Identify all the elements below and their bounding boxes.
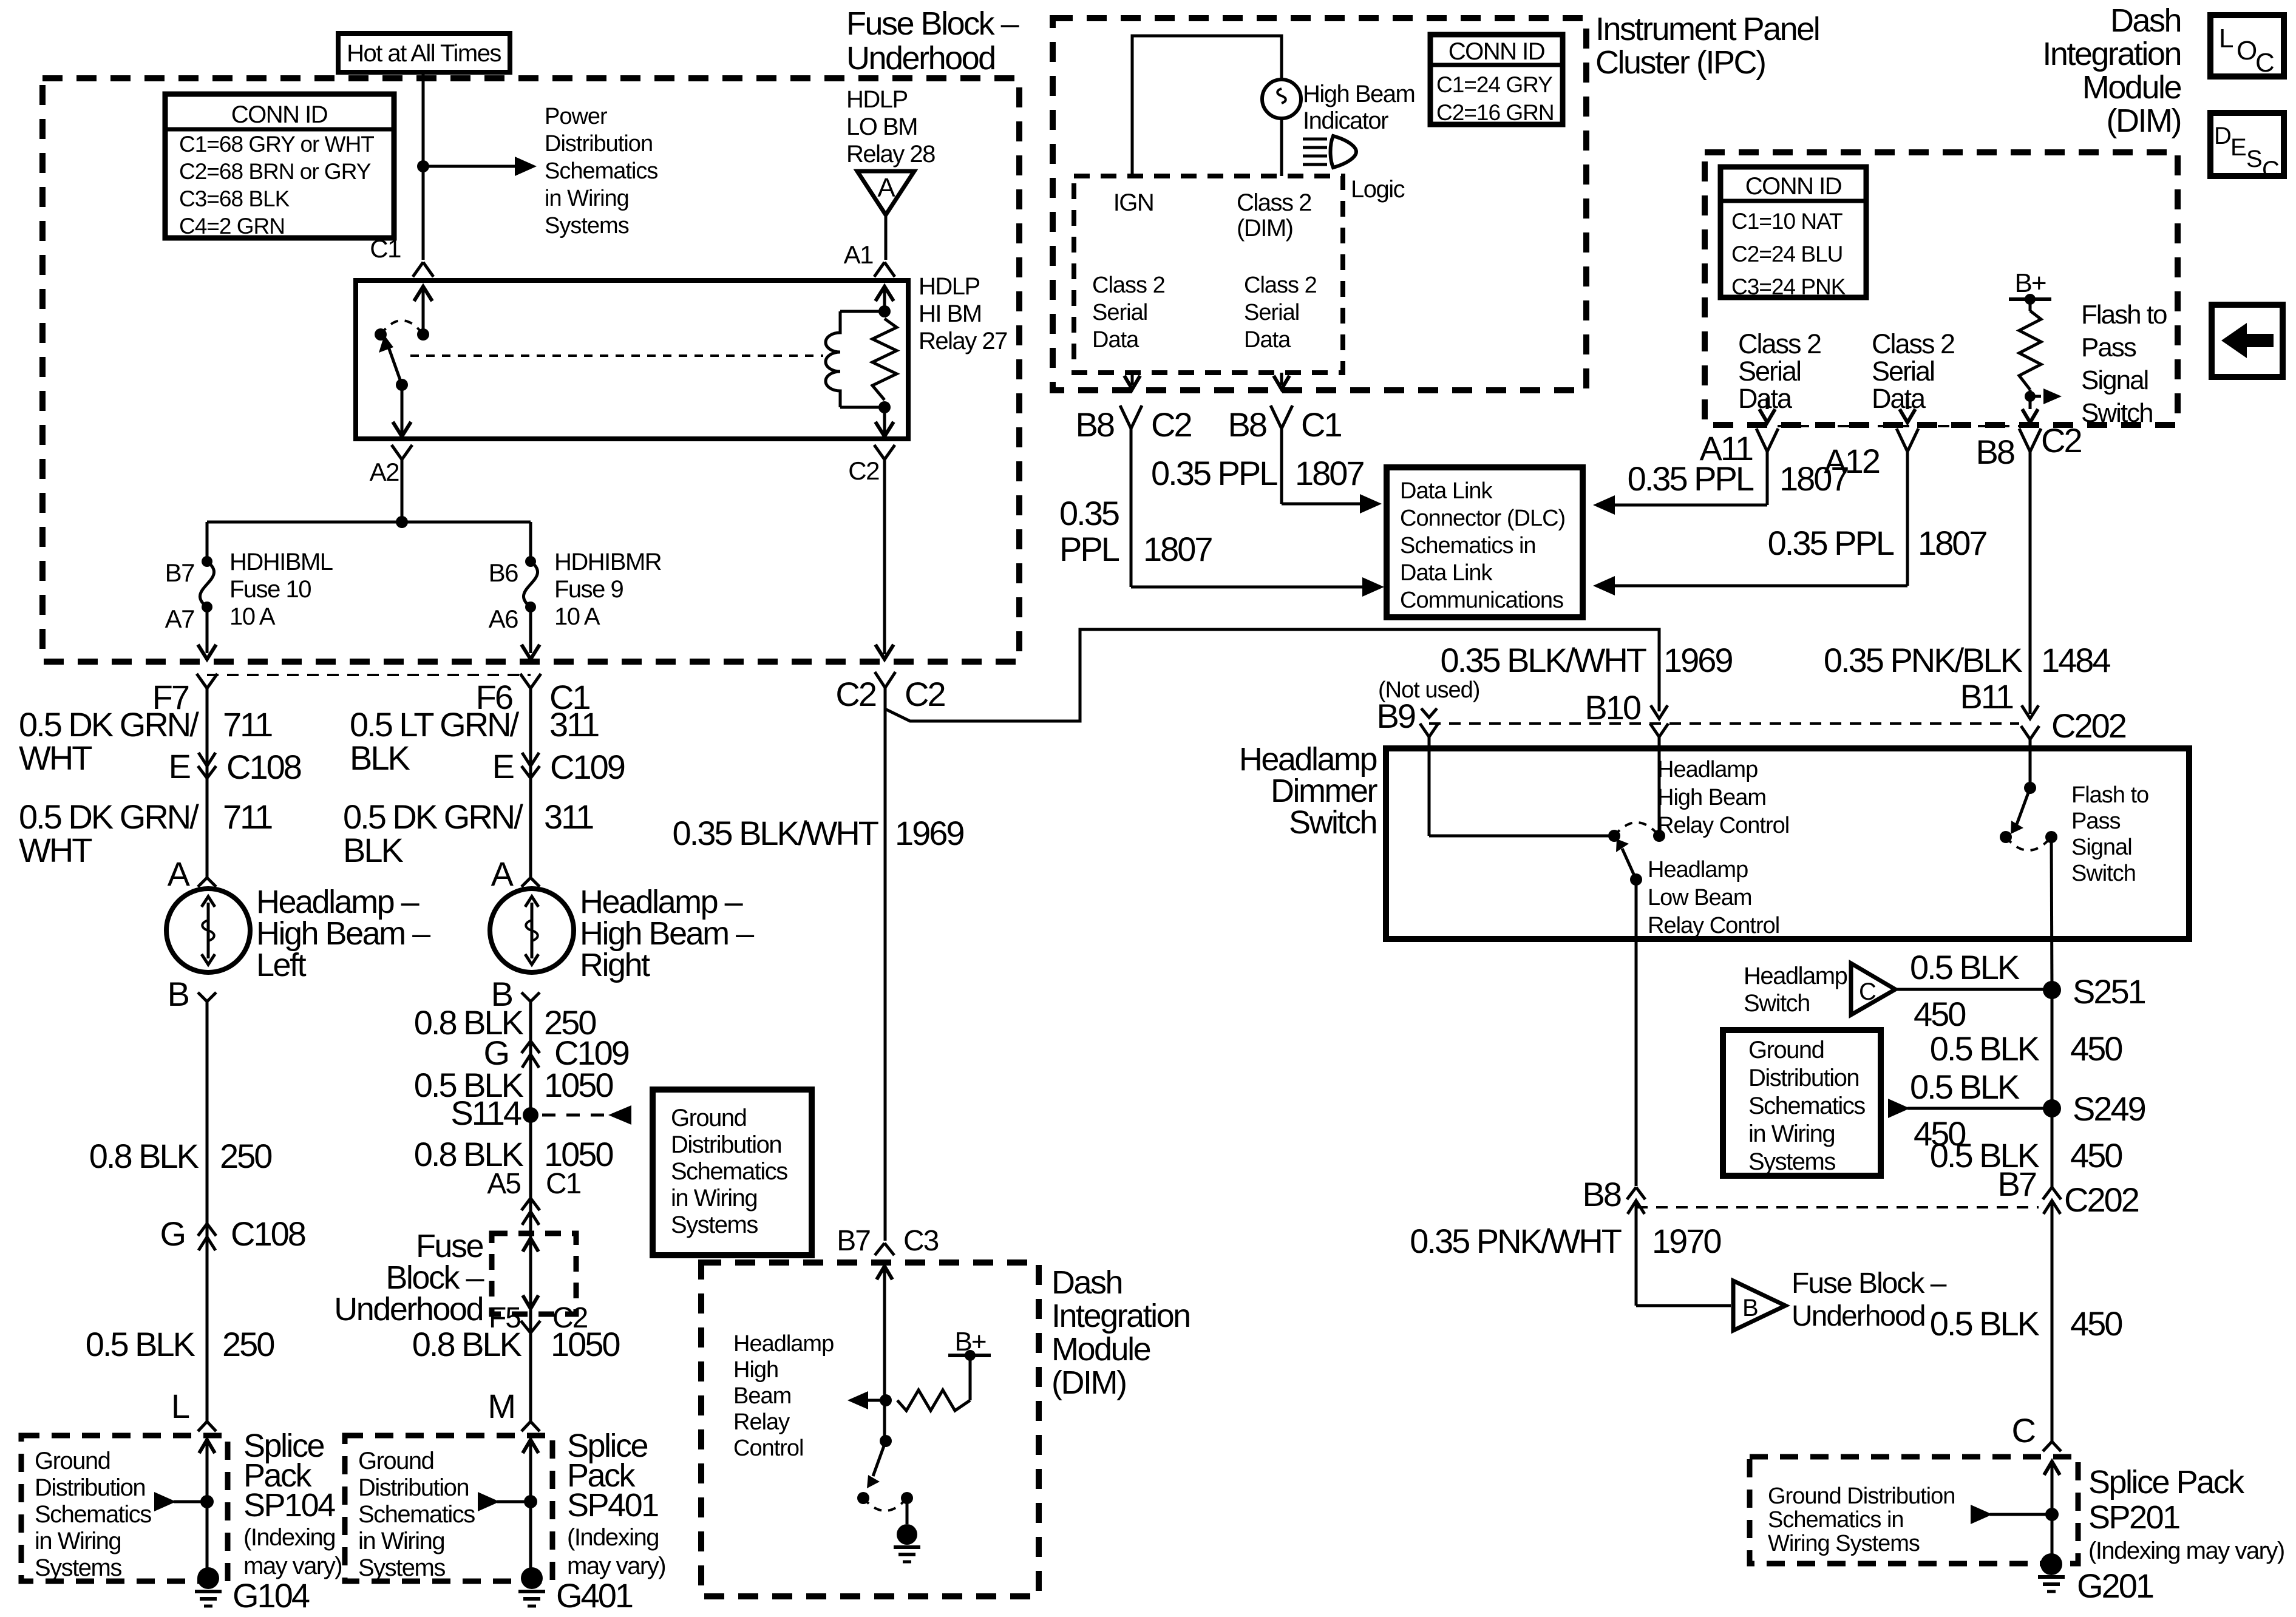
resistor high beam relay drive: [897, 1390, 970, 1411]
switch top contact (DIM bottom): [880, 1435, 892, 1447]
label Headlamp High Beam Relay Control (DIM): [733, 1331, 834, 1461]
svg-text:in Wiring: in Wiring: [358, 1528, 444, 1554]
wire B+ down to resistor: [969, 1355, 972, 1400]
svg-text:may vary): may vary): [243, 1553, 342, 1579]
svg-text:C1: C1: [1301, 405, 1341, 444]
svg-text:High: High: [733, 1357, 778, 1383]
svg-text:1969: 1969: [895, 814, 963, 852]
svg-text:0.5 BLK: 0.5 BLK: [1930, 1029, 2040, 1068]
svg-text:Underhood: Underhood: [846, 40, 995, 76]
label HDHIBMR Fuse 9 10A: [554, 549, 662, 630]
svg-text:10 A: 10 A: [554, 603, 600, 630]
svg-text:0.35 BLK/WHT: 0.35 BLK/WHT: [1441, 641, 1646, 679]
pin B10 label: [1584, 688, 1640, 727]
svg-text:1050: 1050: [544, 1066, 613, 1104]
svg-text:B10: B10: [1584, 688, 1640, 727]
svg-text:Relay Control: Relay Control: [1657, 813, 1789, 838]
pin F6 label: [476, 678, 512, 716]
pin G label (C108 low): [160, 1215, 185, 1253]
svg-text:0.5 DK GRN/: 0.5 DK GRN/: [19, 705, 199, 744]
label Flash to Pass Signal Switch (DIM): [2081, 300, 2167, 428]
connector B8/C2 fork (IPC): [1120, 405, 1142, 587]
svg-text:Low Beam: Low Beam: [1648, 885, 1752, 910]
label Headlamp Dimmer Switch: [1239, 741, 1378, 841]
svg-text:Instrument Panel: Instrument Panel: [1595, 11, 1819, 47]
wire C triangle to S251: [1895, 988, 2052, 991]
wire relay out to C2: [875, 407, 894, 436]
svg-text:Headlamp: Headlamp: [1648, 857, 1748, 883]
wire IPC C2 to DLC: [1131, 577, 1384, 597]
svg-text:S114: S114: [450, 1094, 521, 1132]
dimmer switch pivot: [1630, 873, 1642, 886]
node hot feed junction: [417, 160, 429, 172]
svg-text:0.8 BLK: 0.8 BLK: [412, 1325, 522, 1363]
label Headlamp High Beam Relay Control (dimmer): [1657, 757, 1789, 838]
label G201: [2077, 1567, 2153, 1605]
svg-text:Fuse: Fuse: [416, 1228, 483, 1264]
svg-text:C109: C109: [550, 748, 625, 786]
svg-text:Schematics: Schematics: [1748, 1093, 1865, 1119]
wire B9 to dimmer contact: [1429, 835, 1614, 838]
label HDLP HI BM Relay 27: [919, 273, 1007, 354]
node coil bottom: [878, 401, 891, 413]
svg-text:10 A: 10 A: [229, 603, 276, 630]
wire DIM class2 left exit: [1759, 398, 1775, 422]
svg-text:Data: Data: [1738, 383, 1793, 414]
wire IPC class2 right exit: [1274, 373, 1289, 389]
svg-text:Flash to: Flash to: [2081, 300, 2167, 330]
label C108 (G row): [231, 1215, 305, 1253]
svg-text:0.5 BLK: 0.5 BLK: [86, 1325, 195, 1363]
splice S114: [450, 1094, 538, 1132]
relay economizer resistor: [872, 319, 897, 400]
pin B9 label: [1377, 697, 1415, 735]
ground symbol (DIM bottom): [894, 1524, 920, 1562]
svg-text:0.5 DK GRN/: 0.5 DK GRN/: [19, 798, 199, 836]
svg-text:B+: B+: [2014, 268, 2045, 298]
svg-text:B: B: [1742, 1295, 1758, 1321]
svg-text:PPL: PPL: [1059, 530, 1119, 568]
module Instrument Panel Cluster dashed box: [1053, 18, 1586, 390]
splice pack SP104 dashed box: [21, 1436, 228, 1581]
connector A fork (right lamp): [521, 878, 540, 887]
label S249: [2073, 1090, 2145, 1128]
svg-text:A11: A11: [1700, 429, 1753, 467]
pin C label (SP201): [2012, 1411, 2036, 1449]
pin C1 label (relay coil): [370, 234, 401, 263]
flash to pass left contact: [2000, 831, 2012, 843]
svg-text:(DIM): (DIM): [1051, 1364, 1126, 1401]
wire label 0.35 PNK/WHT 1970: [1410, 1222, 1720, 1260]
module Fuse Block - Underhood (dashed outline): [42, 78, 1019, 662]
svg-text:C2=68 BRN or GRY: C2=68 BRN or GRY: [179, 159, 371, 184]
pin A6 label (fuse9): [489, 605, 518, 633]
wire through small FB box: [523, 1238, 538, 1309]
svg-text:C2: C2: [2041, 421, 2081, 459]
label (Not used): [1378, 677, 1479, 703]
svg-text:E: E: [2230, 134, 2246, 161]
label Class 2 Serial Data (IPC right): [1244, 273, 1317, 353]
svg-text:Fuse Block –: Fuse Block –: [1792, 1267, 1947, 1300]
dimmer switch arm: [1616, 839, 1636, 880]
relay switch pivot: [396, 379, 408, 391]
connector C2 fork (relay output): [874, 445, 895, 654]
label Fuse Block - Underhood title: [846, 5, 1019, 76]
pin C2 label (relay output): [848, 456, 879, 485]
wire fuse9 to F6: [521, 607, 540, 659]
pin A12 label: [1824, 442, 1879, 480]
svg-text:Indicator: Indicator: [1303, 107, 1388, 134]
svg-text:S249: S249: [2073, 1090, 2145, 1128]
svg-text:Schematics: Schematics: [545, 158, 657, 184]
connector A5/C1 inline: [521, 1198, 540, 1225]
label Headlamp Low Beam Relay Control (dimmer): [1648, 857, 1779, 938]
wire IGN loop: [1132, 36, 1282, 176]
wire label 0.35 BLK/WHT 1969 (main): [673, 814, 964, 852]
wire label 0.5 BLK 450 (to SP201): [1930, 1304, 2122, 1343]
pin A5 label: [487, 1168, 520, 1200]
svg-text:C3=24 PNK: C3=24 PNK: [1731, 274, 1846, 299]
svg-text:Signal: Signal: [2071, 835, 2132, 860]
svg-text:Distribution: Distribution: [358, 1474, 469, 1501]
svg-text:Data Link: Data Link: [1400, 560, 1493, 586]
svg-text:450: 450: [1914, 995, 1965, 1033]
wire label 0.35 PPL 1807 (IPC C1 wire): [1151, 454, 1364, 492]
svg-text:Module: Module: [1051, 1331, 1150, 1368]
svg-text:Pass: Pass: [2071, 808, 2120, 834]
icon high beam lamp: [1303, 136, 1356, 168]
wire label 0.35 PPL 1807 (A11 wire): [1628, 459, 1849, 498]
svg-text:C2=24 BLU: C2=24 BLU: [1731, 242, 1843, 266]
arrow relay control output left: [847, 1391, 886, 1409]
wire reference arrow to Power Distribution: [423, 157, 537, 176]
pin E label (C109): [492, 747, 514, 785]
svg-text:High Beam: High Beam: [1657, 785, 1766, 810]
svg-text:Headlamp –: Headlamp –: [580, 884, 743, 920]
connector B7/C3 fork: [875, 1243, 894, 1255]
connector A1 fork: [874, 262, 895, 277]
svg-text:C: C: [1859, 978, 1876, 1005]
svg-text:711: 711: [223, 798, 272, 836]
ground G201: [2038, 1553, 2065, 1592]
label Dash Integration Module (DIM): [2042, 2, 2181, 139]
power bar B+ (DIM): [2009, 294, 2051, 305]
wire label 0.8 BLK 250 (right): [414, 1003, 596, 1042]
svg-text:311: 311: [544, 798, 593, 836]
wire bus to fuse 10: [206, 522, 209, 561]
relay linkage dashed line: [410, 354, 823, 357]
offpage triangle A (Relay 28): [857, 171, 914, 260]
svg-text:BLK: BLK: [350, 739, 410, 777]
splice S249: [2043, 1099, 2061, 1117]
node flash resistor out: [2025, 391, 2036, 402]
svg-text:CONN ID: CONN ID: [1745, 173, 1841, 200]
svg-text:Schematics: Schematics: [358, 1501, 475, 1528]
svg-text:in Wiring: in Wiring: [1748, 1120, 1835, 1147]
svg-text:Headlamp: Headlamp: [1657, 757, 1758, 782]
svg-text:A5: A5: [487, 1168, 520, 1200]
wire DIM A11 to DLC: [1593, 452, 1767, 515]
arrow into relay pin C1: [414, 286, 432, 334]
svg-text:Fuse Block –: Fuse Block –: [846, 5, 1019, 42]
fuse F10 HDHIBML: [200, 556, 214, 612]
wire flash contact down to S251: [2051, 837, 2052, 990]
svg-text:250: 250: [220, 1137, 271, 1175]
pin A7 label (fuse10): [165, 605, 195, 633]
svg-text:B: B: [168, 975, 189, 1013]
label Fuse Block Underhood (B ref): [1792, 1267, 1947, 1332]
connector B10: [1650, 705, 1668, 836]
connector B8/C202 (dimmer): [1627, 1187, 1645, 1306]
svg-text:C2: C2: [848, 456, 879, 485]
pin B8 label (IPC C2): [1076, 405, 1114, 444]
wire flash output down: [2022, 396, 2038, 422]
svg-text:Relay 28: Relay 28: [846, 141, 935, 168]
wire label 0.5 DK GRN/WHT 711 lower: [19, 798, 272, 869]
label High Beam Indicator: [1303, 81, 1415, 134]
svg-text:Underhood: Underhood: [1792, 1300, 1925, 1332]
wire DIM class2 right exit: [1900, 398, 1915, 422]
svg-text:Power: Power: [545, 104, 608, 129]
connector F5 fork: [521, 1321, 540, 1422]
svg-text:Wiring Systems: Wiring Systems: [1768, 1531, 1920, 1556]
svg-text:B11: B11: [1960, 677, 2013, 716]
svg-text:(Indexing: (Indexing: [567, 1524, 659, 1551]
pin B8 label (DIM C2): [1976, 433, 2014, 471]
svg-text:SP201: SP201: [2088, 1499, 2179, 1536]
pin E label (C108): [169, 747, 190, 785]
svg-text:C2: C2: [1151, 405, 1191, 444]
svg-text:Serial: Serial: [1244, 300, 1299, 325]
wire branch to headlamp dimmer B10: [885, 629, 1659, 721]
svg-text:1050: 1050: [551, 1325, 619, 1363]
splice S251: [2043, 981, 2061, 999]
wire label 0.5 LT GRN/BLK 311: [350, 705, 599, 777]
svg-text:Fuse 10: Fuse 10: [229, 576, 311, 603]
svg-text:Splice Pack: Splice Pack: [2088, 1464, 2245, 1500]
svg-text:Headlamp: Headlamp: [733, 1331, 834, 1357]
wire label 0.5 BLK (S249 arrow): [1910, 1068, 2020, 1106]
svg-text:Hot at All Times: Hot at All Times: [347, 40, 501, 67]
svg-text:0.35 BLK/WHT: 0.35 BLK/WHT: [673, 814, 878, 852]
wire B8 to triangle B: [1636, 1304, 1731, 1307]
pin C1 label (F6 row): [549, 678, 589, 716]
wire label 450 (S249 arrow): [1914, 1114, 1965, 1153]
svg-text:B7: B7: [837, 1225, 870, 1257]
label C3 (DIM): [903, 1225, 939, 1257]
svg-text:G401: G401: [556, 1576, 633, 1615]
wire label 450 (C wire): [1914, 995, 1965, 1033]
relay switch arm: [379, 335, 402, 385]
svg-text:Distribution: Distribution: [35, 1474, 145, 1501]
wire label 0.5 BLK 450 (S251-S249): [1930, 1029, 2122, 1068]
svg-text:in Wiring: in Wiring: [35, 1528, 121, 1554]
svg-text:Class 2: Class 2: [1244, 273, 1317, 298]
svg-text:Dash: Dash: [2110, 2, 2181, 39]
svg-text:Data: Data: [1244, 327, 1291, 353]
connector F6 fork: [520, 674, 541, 878]
svg-text:0.35: 0.35: [1059, 494, 1119, 532]
svg-text:C108: C108: [226, 748, 301, 786]
wire label 0.35 PNK/BLK 1484: [1824, 641, 2111, 679]
svg-text:B8: B8: [1228, 405, 1266, 444]
svg-text:Headlamp –: Headlamp –: [256, 884, 419, 920]
svg-text:Fuse 9: Fuse 9: [554, 576, 623, 603]
wire DIM A12 to DLC: [1593, 452, 1907, 595]
arrow ref to SP401 splice: [478, 1492, 531, 1511]
svg-text:(DIM): (DIM): [1237, 215, 1292, 242]
label B+ (DIM): [2014, 268, 2045, 298]
boxed letters LOC: [2210, 15, 2284, 78]
svg-text:LO BM: LO BM: [846, 114, 917, 140]
switch arm (DIM bottom): [867, 1441, 886, 1488]
node resistor junction: [880, 1394, 892, 1406]
label G104: [233, 1576, 310, 1615]
svg-text:Systems: Systems: [545, 213, 629, 239]
svg-text:A7: A7: [165, 605, 195, 633]
svg-text:Class 2: Class 2: [1872, 328, 1954, 359]
pin G label (C109 low): [483, 1034, 508, 1072]
pin B7 label (fuse10): [165, 558, 195, 587]
connector E/C108 inline: [198, 753, 216, 778]
wire label 0.8 BLK 250 (left): [89, 1137, 272, 1175]
pin A label (left lamp): [168, 855, 191, 893]
label C202 (B7): [2064, 1181, 2139, 1219]
dimmer switch right contact: [1653, 830, 1665, 842]
connector C2/C2 inline: [835, 672, 945, 1241]
wire label 0.5 DK GRN/BLK 311: [343, 798, 593, 869]
reference box Data Link Connector (DLC): [1387, 467, 1583, 617]
svg-text:Integration: Integration: [1051, 1298, 1190, 1334]
svg-text:Ground: Ground: [35, 1448, 110, 1474]
arrow into relay pin A1: [875, 286, 894, 311]
svg-text:C1=24 GRY: C1=24 GRY: [1436, 72, 1552, 97]
connector A12 fork: [1897, 429, 1918, 452]
boxed letters DESC: [2210, 113, 2284, 183]
wire dimmer common down to B8: [1635, 880, 1638, 1186]
high beam indicator bulb: [1262, 80, 1301, 118]
svg-text:A: A: [877, 173, 895, 203]
svg-text:High Beam: High Beam: [1303, 81, 1415, 107]
svg-text:HDHIBML: HDHIBML: [229, 549, 333, 575]
label Ground Distribution text (SP201): [1768, 1483, 1955, 1556]
connector B11/C202: [2021, 705, 2039, 788]
svg-text:A1: A1: [844, 240, 874, 269]
svg-text:L: L: [171, 1387, 189, 1425]
connector F7 fork: [197, 674, 217, 878]
svg-text:Block –: Block –: [385, 1259, 484, 1296]
label C108 (E row): [226, 748, 301, 786]
relay coil: [826, 311, 840, 407]
pin L label: [171, 1387, 189, 1425]
pin M label: [487, 1387, 514, 1425]
svg-text:High Beam –: High Beam –: [580, 915, 754, 952]
wire label 0.5 BLK 1050: [414, 1066, 613, 1104]
wire label 0.5 BLK 250: [86, 1325, 274, 1363]
pin B6 label (fuse9): [489, 558, 518, 587]
svg-text:Communications: Communications: [1400, 588, 1563, 613]
svg-text:0.5 BLK: 0.5 BLK: [1930, 1304, 2040, 1343]
svg-text:B8: B8: [1076, 405, 1114, 444]
svg-text:C1: C1: [370, 234, 401, 263]
switch dashed arc (DIM bottom): [863, 1498, 907, 1511]
svg-text:Relay 27: Relay 27: [919, 328, 1007, 354]
svg-text:Logic: Logic: [1351, 176, 1405, 203]
label Headlamp Switch: [1744, 963, 1847, 1017]
svg-text:BLK: BLK: [343, 831, 403, 869]
svg-text:Switch: Switch: [1744, 990, 1810, 1017]
svg-text:Systems: Systems: [358, 1554, 445, 1581]
svg-text:E: E: [492, 747, 514, 785]
svg-text:250: 250: [222, 1325, 274, 1363]
wire into DIM bottom: [877, 1266, 892, 1441]
svg-text:Data: Data: [1872, 383, 1926, 414]
label HDLP LO BM Relay 28: [846, 86, 935, 168]
svg-text:A12: A12: [1824, 442, 1879, 480]
connector line C202 lower dashed: [1636, 1206, 2039, 1209]
svg-text:450: 450: [2070, 1304, 2122, 1343]
svg-text:in Wiring: in Wiring: [545, 186, 629, 211]
svg-text:CONN ID: CONN ID: [231, 101, 327, 128]
arrow flash output right: [2030, 388, 2062, 404]
svg-text:Systems: Systems: [35, 1554, 121, 1581]
svg-text:Switch: Switch: [2081, 398, 2153, 428]
label Headlamp High Beam Left: [256, 884, 430, 983]
fuse F9 HDHIBMR: [523, 556, 537, 612]
ground G401: [518, 1567, 545, 1606]
svg-text:Module: Module: [2082, 69, 2181, 106]
connector A11 fork: [1756, 429, 1778, 452]
svg-text:0.35 PPL: 0.35 PPL: [1768, 524, 1894, 562]
svg-text:Schematics: Schematics: [35, 1501, 151, 1528]
wire label 0.8 BLK 1050 (below S114): [414, 1135, 613, 1173]
splice pack SP201 dashed box: [1750, 1457, 2078, 1564]
connector C1 fork: [413, 262, 433, 277]
headlamp high beam left bulb: [166, 889, 250, 972]
connector M fork: [521, 1422, 540, 1431]
svg-text:Integration: Integration: [2042, 36, 2181, 72]
connector B8/C1 fork (IPC): [1271, 405, 1292, 504]
wire S251 to S249: [2051, 990, 2054, 1108]
svg-text:Distribution: Distribution: [671, 1131, 781, 1158]
relay box HDLP HI BM Relay 27 outline: [356, 280, 908, 439]
label C2 (DIM): [2041, 421, 2081, 459]
connector line C202 upper dashed: [1429, 722, 2019, 725]
svg-text:1807: 1807: [1918, 524, 1986, 562]
svg-text:O: O: [2237, 36, 2257, 66]
pin B label (left lamp): [168, 975, 189, 1013]
svg-text:A6: A6: [489, 605, 518, 633]
svg-text:0.35 PPL: 0.35 PPL: [1151, 454, 1277, 492]
svg-text:A: A: [491, 855, 514, 893]
svg-text:Schematics: Schematics: [671, 1158, 787, 1185]
label Class 2 (DIM): [1237, 189, 1311, 242]
svg-text:HI BM: HI BM: [919, 300, 982, 327]
label C109 (G row): [554, 1034, 629, 1072]
svg-text:Schematics in: Schematics in: [1768, 1507, 1904, 1533]
resistor flash to pass pull-up: [2019, 299, 2041, 396]
wire into SP401: [523, 1440, 538, 1578]
svg-text:CONN ID: CONN ID: [1449, 38, 1544, 65]
label Splice Pack SP401: [567, 1428, 665, 1579]
label IGN: [1113, 189, 1154, 216]
svg-text:WHT: WHT: [19, 831, 92, 869]
connector B fork (right lamp): [521, 992, 540, 1423]
svg-text:0.5 LT GRN/: 0.5 LT GRN/: [350, 705, 520, 744]
connector B8/C2 fork (DIM): [2019, 429, 2041, 714]
wire label 0.5 DK GRN/WHT 711 upper: [19, 705, 272, 777]
label G401: [556, 1576, 633, 1615]
